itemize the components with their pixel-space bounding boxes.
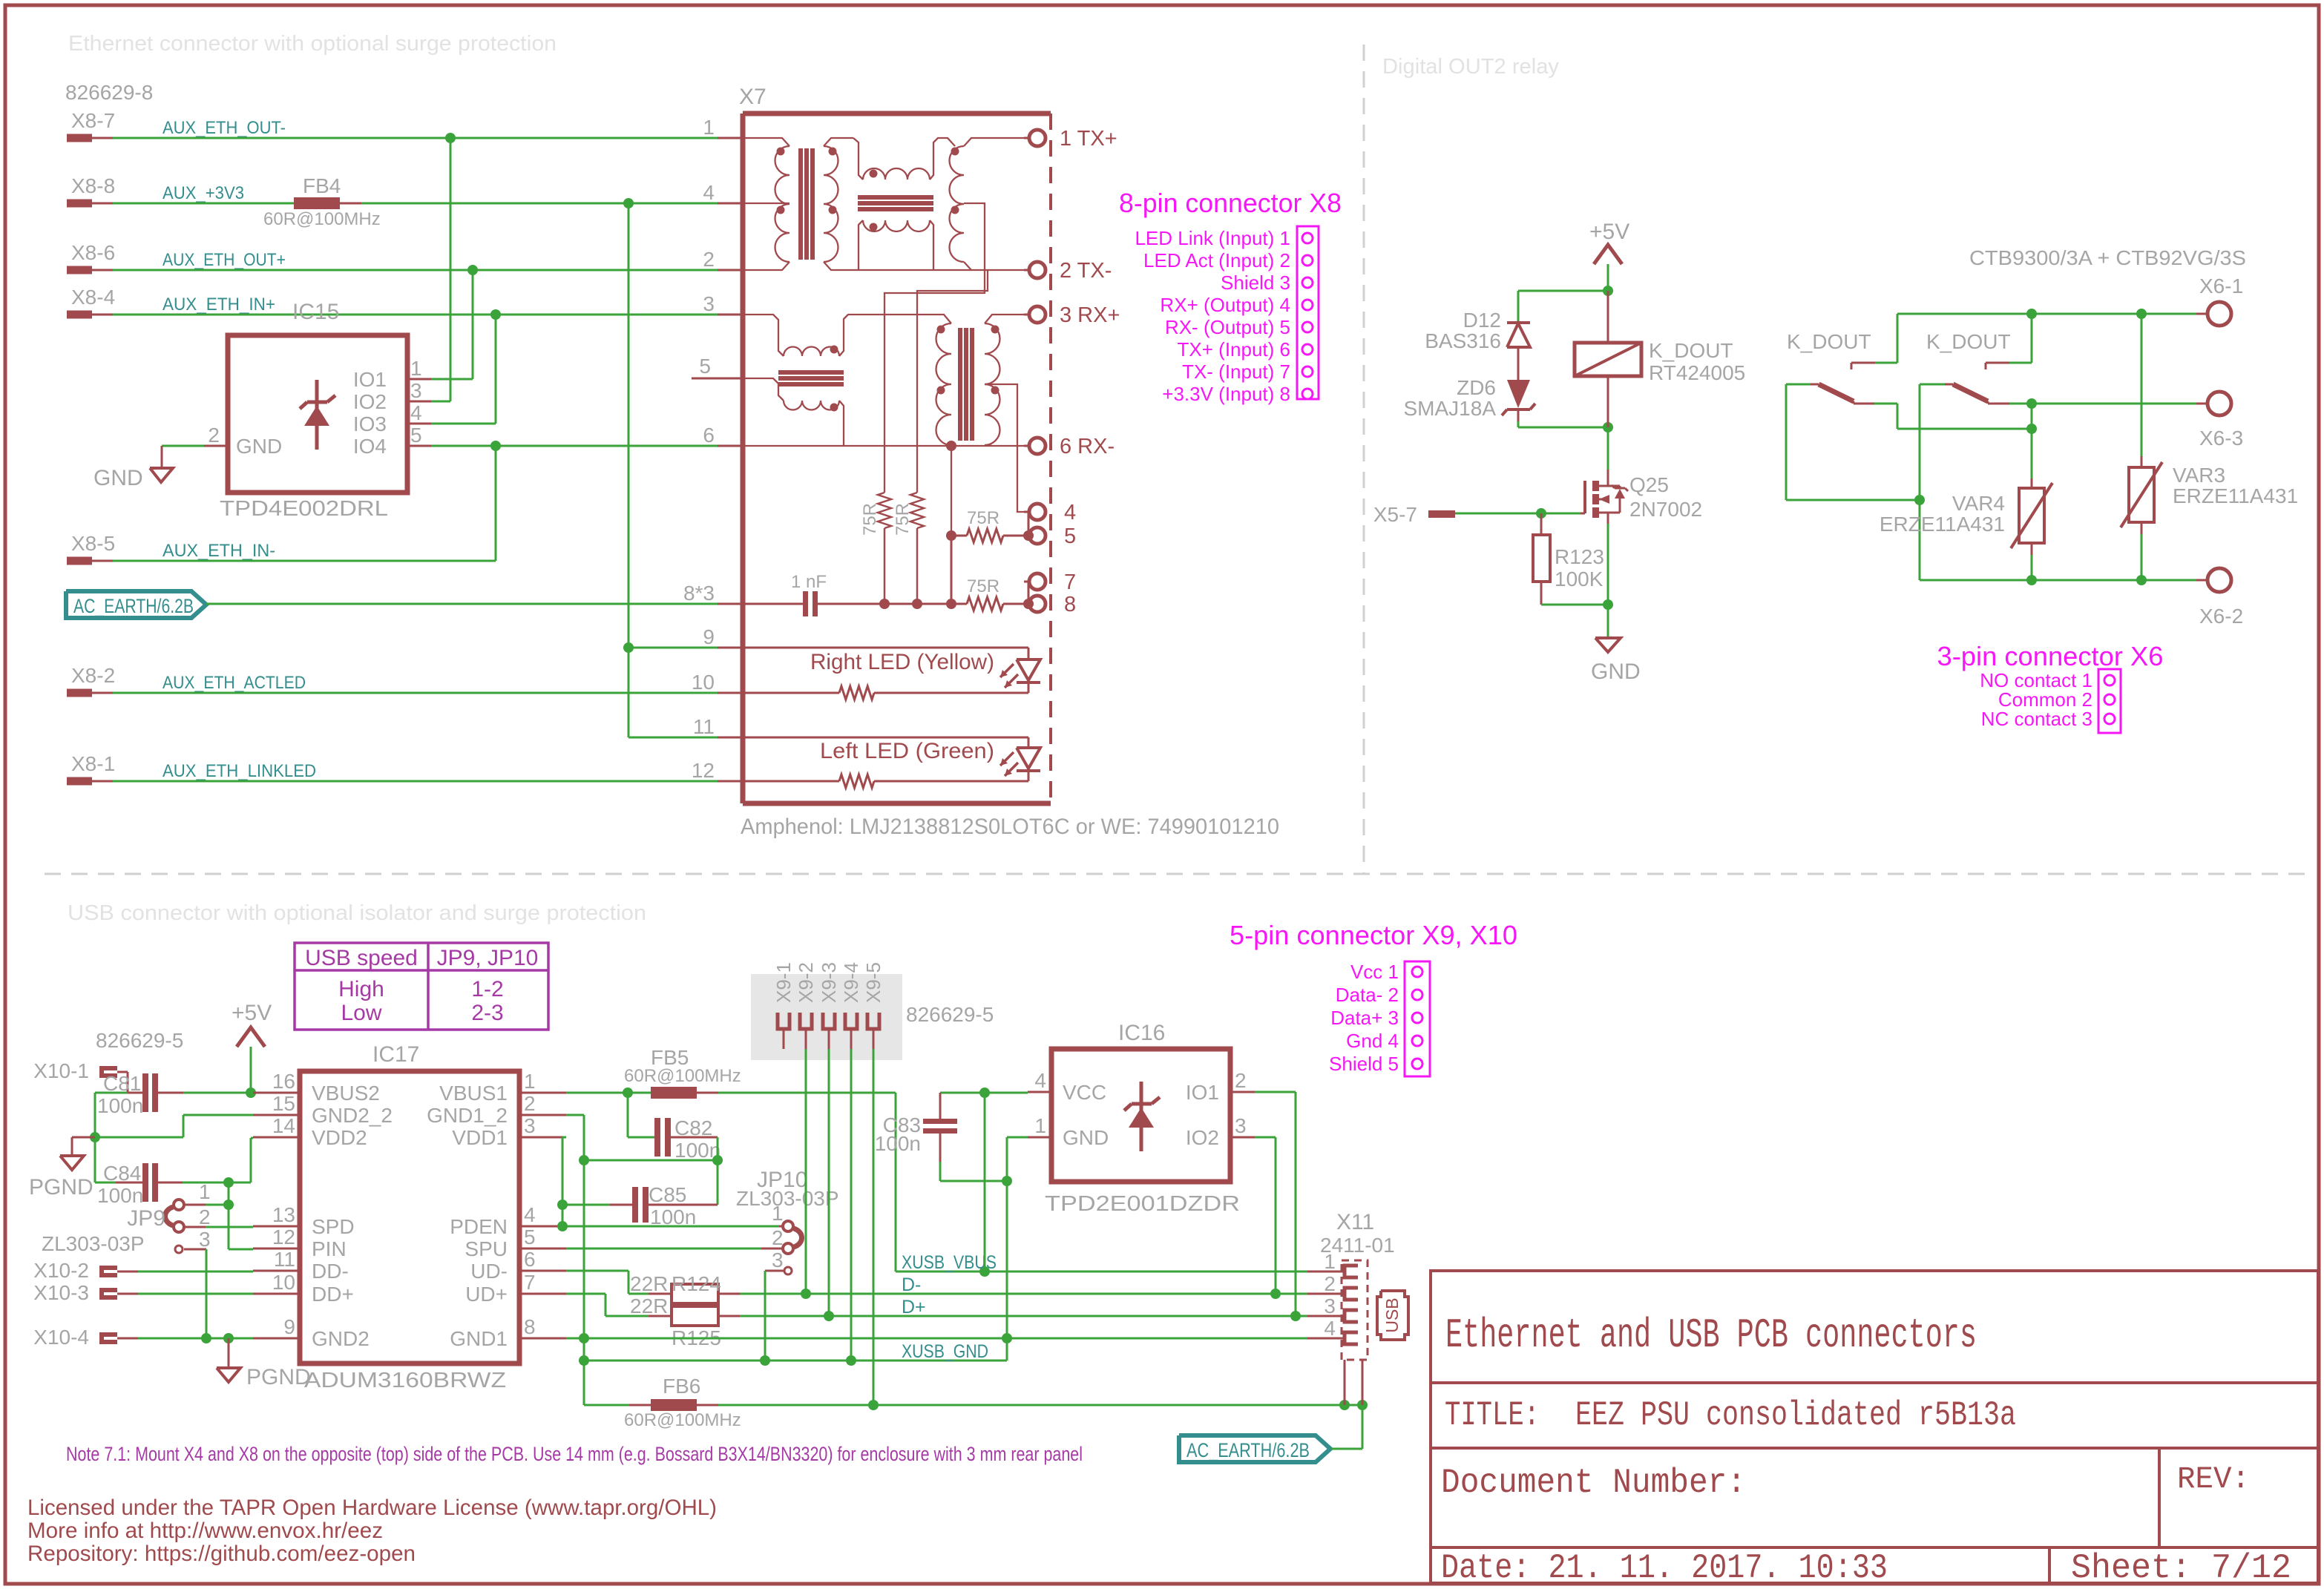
svg-text:UD-: UD-: [470, 1260, 508, 1283]
svg-text:10: 10: [272, 1271, 295, 1294]
svg-text:Ethernet connector with option: Ethernet connector with optional surge p…: [68, 32, 557, 56]
svg-text:X10-2: X10-2: [33, 1259, 89, 1282]
svg-text:2 TX-: 2 TX-: [1060, 259, 1112, 283]
svg-text:15: 15: [272, 1092, 295, 1115]
svg-text:2: 2: [703, 248, 715, 271]
svg-text:Left LED (Green): Left LED (Green): [820, 739, 994, 763]
svg-text:X8-8: X8-8: [71, 174, 115, 197]
svg-text:PGND: PGND: [29, 1175, 93, 1200]
svg-text:AUX_ETH_IN+: AUX_ETH_IN+: [163, 295, 275, 315]
svg-text:LED Link (Input) 1: LED Link (Input) 1: [1135, 227, 1290, 249]
svg-text:AUX_ETH_OUT-: AUX_ETH_OUT-: [163, 118, 286, 138]
svg-text:X8-1: X8-1: [71, 752, 115, 775]
svg-text:UD+: UD+: [465, 1283, 508, 1306]
svg-text:GND: GND: [1591, 659, 1641, 684]
svg-text:Digital OUT2 relay: Digital OUT2 relay: [1382, 55, 1559, 79]
svg-text:1: 1: [1034, 1114, 1046, 1137]
svg-text:2: 2: [208, 424, 220, 447]
svg-text:IO4: IO4: [353, 435, 387, 458]
svg-text:SPU: SPU: [465, 1237, 508, 1260]
svg-text:Shield 5: Shield 5: [1329, 1053, 1399, 1075]
svg-text:4: 4: [524, 1203, 536, 1226]
svg-text:AUX_ETH_ACTLED: AUX_ETH_ACTLED: [163, 673, 306, 693]
svg-text:3: 3: [524, 1114, 536, 1137]
svg-text:VBUS1: VBUS1: [439, 1082, 508, 1105]
svg-text:FB4: FB4: [303, 174, 341, 197]
svg-text:100n: 100n: [875, 1132, 921, 1155]
svg-text:8*3: 8*3: [683, 582, 715, 605]
svg-text:22R: 22R: [630, 1294, 668, 1317]
svg-text:AUX_ETH_IN-: AUX_ETH_IN-: [163, 541, 275, 561]
svg-text:1: 1: [703, 116, 715, 139]
svg-text:Document Number:: Document Number:: [1441, 1464, 1746, 1502]
svg-text:AUX_+3V3: AUX_+3V3: [163, 183, 244, 203]
svg-text:EEZ PSU consolidated r5B13a: EEZ PSU consolidated r5B13a: [1575, 1396, 2016, 1435]
svg-text:BAS316: BAS316: [1425, 329, 1501, 352]
svg-text:TPD4E002DRL: TPD4E002DRL: [220, 497, 388, 521]
svg-text:Repository: https://github.com: Repository: https://github.com/eez-open: [27, 1542, 416, 1566]
svg-text:8-pin connector X8: 8-pin connector X8: [1119, 188, 1342, 218]
svg-text:IC16: IC16: [1118, 1021, 1165, 1045]
svg-text:DD+: DD+: [312, 1283, 354, 1306]
svg-text:XUSB_GND: XUSB_GND: [902, 1341, 988, 1362]
svg-text:FB6: FB6: [663, 1375, 700, 1398]
svg-text:VCC: VCC: [1063, 1081, 1106, 1104]
svg-text:3: 3: [703, 292, 715, 315]
svg-text:IO1: IO1: [353, 368, 387, 391]
svg-text:USB speed: USB speed: [305, 946, 418, 970]
svg-text:GND: GND: [236, 435, 282, 458]
svg-text:VDD2: VDD2: [312, 1126, 367, 1149]
svg-text:3: 3: [1235, 1114, 1247, 1137]
svg-text:1-2: 1-2: [471, 977, 503, 1001]
svg-text:4: 4: [703, 181, 715, 204]
svg-text:1: 1: [199, 1180, 211, 1203]
svg-text:75R: 75R: [967, 508, 999, 528]
svg-text:RX- (Output) 5: RX- (Output) 5: [1165, 316, 1290, 338]
svg-text:IC15: IC15: [292, 300, 339, 324]
svg-text:1 nF: 1 nF: [791, 572, 827, 592]
svg-text:SMAJ18A: SMAJ18A: [1404, 397, 1497, 420]
svg-text:K_DOUT: K_DOUT: [1787, 330, 1871, 353]
svg-text:75R: 75R: [967, 576, 999, 596]
svg-text:826629-8: 826629-8: [65, 81, 153, 104]
svg-text:X6-3: X6-3: [2199, 427, 2243, 450]
svg-text:3: 3: [772, 1248, 784, 1271]
svg-text:4: 4: [1064, 501, 1076, 524]
svg-text:60R@100MHz: 60R@100MHz: [263, 209, 381, 229]
svg-text:2N7002: 2N7002: [1629, 498, 1702, 521]
svg-text:X8-5: X8-5: [71, 532, 115, 555]
svg-text:TPD2E001DZDR: TPD2E001DZDR: [1045, 1192, 1240, 1216]
svg-text:K_DOUT: K_DOUT: [1649, 339, 1733, 362]
svg-text:826629-5: 826629-5: [96, 1029, 183, 1052]
svg-text:2: 2: [524, 1092, 536, 1115]
svg-text:VAR4: VAR4: [1952, 492, 2005, 515]
svg-text:RX+ (Output) 4: RX+ (Output) 4: [1160, 294, 1290, 316]
svg-text:11: 11: [274, 1248, 295, 1271]
svg-text:IC17: IC17: [372, 1042, 419, 1067]
svg-text:6: 6: [703, 424, 715, 447]
svg-text:VBUS2: VBUS2: [312, 1082, 380, 1105]
svg-text:3 RX+: 3 RX+: [1060, 303, 1120, 327]
svg-text:SPD: SPD: [312, 1215, 355, 1238]
svg-text:GND1: GND1: [450, 1327, 508, 1350]
svg-text:100K: 100K: [1555, 567, 1604, 590]
svg-text:RT424005: RT424005: [1649, 361, 1745, 384]
svg-text:100n: 100n: [650, 1205, 696, 1228]
svg-text:GND1_2: GND1_2: [427, 1104, 508, 1127]
svg-text:X9-2: X9-2: [795, 962, 817, 1003]
svg-text:USB connector with optional is: USB connector with optional isolator and…: [68, 901, 646, 925]
svg-text:1: 1: [524, 1070, 536, 1093]
svg-text:Shield 3: Shield 3: [1221, 272, 1290, 294]
svg-text:IO1: IO1: [1186, 1081, 1219, 1104]
svg-text:ZL303-03P: ZL303-03P: [736, 1187, 839, 1210]
svg-text:1 TX+: 1 TX+: [1060, 127, 1117, 151]
svg-text:D-: D-: [902, 1274, 921, 1295]
svg-text:ERZE11A431: ERZE11A431: [1880, 513, 2005, 536]
svg-text:X8-6: X8-6: [71, 241, 115, 264]
svg-text:X11: X11: [1336, 1210, 1374, 1234]
svg-text:DD-: DD-: [312, 1260, 349, 1283]
svg-text:TX+ (Input) 6: TX+ (Input) 6: [1178, 338, 1290, 361]
svg-text:X10-3: X10-3: [33, 1281, 89, 1304]
svg-text:+3.3V (Input) 8: +3.3V (Input) 8: [1162, 383, 1290, 405]
svg-text:GND2: GND2: [312, 1327, 370, 1350]
svg-text:AUX_ETH_LINKLED: AUX_ETH_LINKLED: [163, 761, 316, 781]
svg-text:D+: D+: [902, 1297, 926, 1317]
svg-text:5: 5: [524, 1226, 536, 1248]
svg-text:Low: Low: [341, 1001, 381, 1025]
svg-text:9: 9: [283, 1315, 295, 1338]
svg-text:Date: 21. 11. 2017. 10:33: Date: 21. 11. 2017. 10:33: [1441, 1549, 1888, 1588]
svg-text:GND2_2: GND2_2: [312, 1104, 393, 1127]
svg-text:ZD6: ZD6: [1457, 376, 1496, 399]
svg-text:14: 14: [272, 1114, 295, 1137]
svg-text:12: 12: [272, 1226, 295, 1248]
svg-text:826629-5: 826629-5: [906, 1003, 994, 1026]
svg-text:JP9: JP9: [127, 1206, 165, 1231]
svg-text:X5-7: X5-7: [1373, 503, 1417, 526]
svg-text:GND: GND: [1063, 1126, 1109, 1149]
svg-text:5-pin connector X9, X10: 5-pin connector X9, X10: [1230, 920, 1517, 950]
svg-text:C84: C84: [103, 1162, 141, 1185]
svg-text:K_DOUT: K_DOUT: [1926, 330, 2011, 353]
svg-text:CTB9300/3A + CTB92VG/3S: CTB9300/3A + CTB92VG/3S: [1969, 246, 2246, 269]
svg-text:2: 2: [1235, 1069, 1247, 1092]
svg-text:1: 1: [772, 1202, 784, 1225]
svg-text:22R: 22R: [630, 1272, 668, 1295]
svg-text:X8-4: X8-4: [71, 286, 115, 309]
svg-text:2: 2: [772, 1226, 784, 1249]
svg-text:X9-3: X9-3: [818, 962, 840, 1003]
svg-text:NC contact 3: NC contact 3: [1981, 708, 2092, 730]
svg-text:3: 3: [410, 379, 422, 402]
svg-text:X6-2: X6-2: [2199, 605, 2243, 628]
svg-text:REV:: REV:: [2177, 1461, 2250, 1497]
svg-text:X7: X7: [739, 85, 767, 109]
svg-text:X9-4: X9-4: [840, 962, 862, 1003]
svg-text:100n: 100n: [97, 1184, 143, 1207]
svg-text:Sheet: 7/12: Sheet: 7/12: [2071, 1549, 2291, 1588]
svg-text:IO2: IO2: [1186, 1126, 1219, 1149]
svg-text:VDD1: VDD1: [452, 1126, 508, 1149]
svg-text:GND: GND: [93, 466, 143, 490]
svg-text:Gnd 4: Gnd 4: [1346, 1030, 1399, 1052]
svg-text:AC_EARTH/6.2B: AC_EARTH/6.2B: [1186, 1439, 1310, 1461]
svg-text:R123: R123: [1555, 545, 1604, 568]
svg-text:XUSB_VBUS: XUSB_VBUS: [902, 1252, 997, 1273]
svg-text:R124: R124: [672, 1272, 721, 1295]
svg-text:High: High: [338, 977, 384, 1001]
svg-text:Right LED (Yellow): Right LED (Yellow): [810, 650, 994, 674]
svg-text:Q25: Q25: [1629, 473, 1669, 496]
svg-text:100n: 100n: [97, 1094, 143, 1117]
svg-text:C81: C81: [103, 1072, 141, 1095]
svg-text:1: 1: [410, 357, 422, 380]
svg-text:VAR3: VAR3: [2173, 464, 2225, 487]
svg-text:X8-2: X8-2: [71, 664, 115, 687]
svg-text:Licensed under the TAPR Open H: Licensed under the TAPR Open Hardware Li…: [27, 1496, 717, 1520]
svg-text:Amphenol: LMJ2138812S0LOT6C or: Amphenol: LMJ2138812S0LOT6C or WE: 74990…: [741, 815, 1279, 839]
svg-text:+5V: +5V: [232, 1001, 272, 1025]
svg-text:PGND: PGND: [246, 1365, 311, 1389]
svg-text:USB: USB: [1382, 1297, 1402, 1332]
svg-text:IO3: IO3: [353, 412, 387, 435]
svg-text:60R@100MHz: 60R@100MHz: [624, 1410, 741, 1430]
svg-text:PDEN: PDEN: [450, 1215, 508, 1238]
svg-text:X9-5: X9-5: [862, 962, 884, 1003]
svg-text:3-pin connector X6: 3-pin connector X6: [1937, 641, 2164, 671]
svg-text:4: 4: [1034, 1069, 1046, 1092]
svg-text:Ethernet and USB PCB connector: Ethernet and USB PCB connectors: [1445, 1312, 1977, 1359]
svg-text:Vcc 1: Vcc 1: [1350, 961, 1399, 983]
svg-text:+5V: +5V: [1589, 220, 1629, 244]
svg-text:Data- 2: Data- 2: [1336, 984, 1399, 1006]
svg-text:10: 10: [692, 671, 715, 694]
svg-text:Note 7.1: Mount X4 and X8 on t: Note 7.1: Mount X4 and X8 on the opposit…: [66, 1443, 1083, 1465]
svg-text:C85: C85: [649, 1183, 686, 1206]
svg-text:ADUM3160BRWZ: ADUM3160BRWZ: [304, 1369, 506, 1392]
svg-text:2: 2: [1324, 1272, 1336, 1295]
svg-text:60R@100MHz: 60R@100MHz: [624, 1066, 741, 1086]
svg-text:IO2: IO2: [353, 390, 387, 413]
svg-text:ERZE11A431: ERZE11A431: [2173, 484, 2298, 507]
svg-text:11: 11: [693, 715, 715, 738]
svg-text:1: 1: [1324, 1250, 1336, 1273]
svg-text:7: 7: [524, 1271, 536, 1294]
svg-text:TX- (Input) 7: TX- (Input) 7: [1182, 361, 1290, 383]
svg-text:5: 5: [1064, 524, 1076, 548]
svg-text:PIN: PIN: [312, 1237, 347, 1260]
svg-text:X10-1: X10-1: [33, 1059, 89, 1082]
svg-text:12: 12: [692, 759, 715, 782]
svg-text:More info at http://www.envox.: More info at http://www.envox.hr/eez: [27, 1519, 383, 1543]
svg-text:TITLE:: TITLE:: [1445, 1396, 1540, 1435]
svg-text:X9-1: X9-1: [772, 962, 795, 1003]
svg-text:5: 5: [410, 424, 422, 447]
svg-text:AUX_ETH_OUT+: AUX_ETH_OUT+: [163, 250, 286, 270]
svg-text:9: 9: [703, 625, 715, 648]
svg-text:16: 16: [272, 1070, 295, 1093]
svg-text:5: 5: [699, 355, 711, 378]
svg-text:3: 3: [199, 1228, 211, 1251]
svg-text:6 RX-: 6 RX-: [1060, 435, 1115, 458]
svg-text:X6-1: X6-1: [2199, 274, 2243, 297]
svg-text:Data+ 3: Data+ 3: [1330, 1007, 1399, 1029]
svg-text:C82: C82: [674, 1116, 712, 1139]
svg-text:JP9, JP10: JP9, JP10: [437, 946, 539, 970]
svg-text:7: 7: [1064, 570, 1076, 594]
svg-text:AC_EARTH/6.2B: AC_EARTH/6.2B: [73, 595, 194, 617]
svg-text:D12: D12: [1463, 309, 1501, 332]
svg-text:4: 4: [410, 401, 422, 424]
svg-text:X8-7: X8-7: [71, 109, 115, 132]
svg-text:X10-4: X10-4: [33, 1326, 89, 1349]
svg-text:6: 6: [524, 1248, 536, 1271]
svg-text:2-3: 2-3: [471, 1001, 503, 1025]
svg-text:ZL303-03P: ZL303-03P: [42, 1232, 145, 1255]
svg-text:2: 2: [199, 1205, 211, 1228]
svg-text:3: 3: [1324, 1294, 1336, 1317]
svg-text:LED Act (Input) 2: LED Act (Input) 2: [1143, 249, 1290, 272]
svg-text:75R: 75R: [893, 503, 913, 536]
svg-text:13: 13: [272, 1203, 295, 1226]
svg-text:75R: 75R: [860, 503, 880, 536]
svg-text:8: 8: [1064, 593, 1076, 616]
svg-text:4: 4: [1324, 1317, 1336, 1340]
svg-text:8: 8: [524, 1315, 536, 1338]
